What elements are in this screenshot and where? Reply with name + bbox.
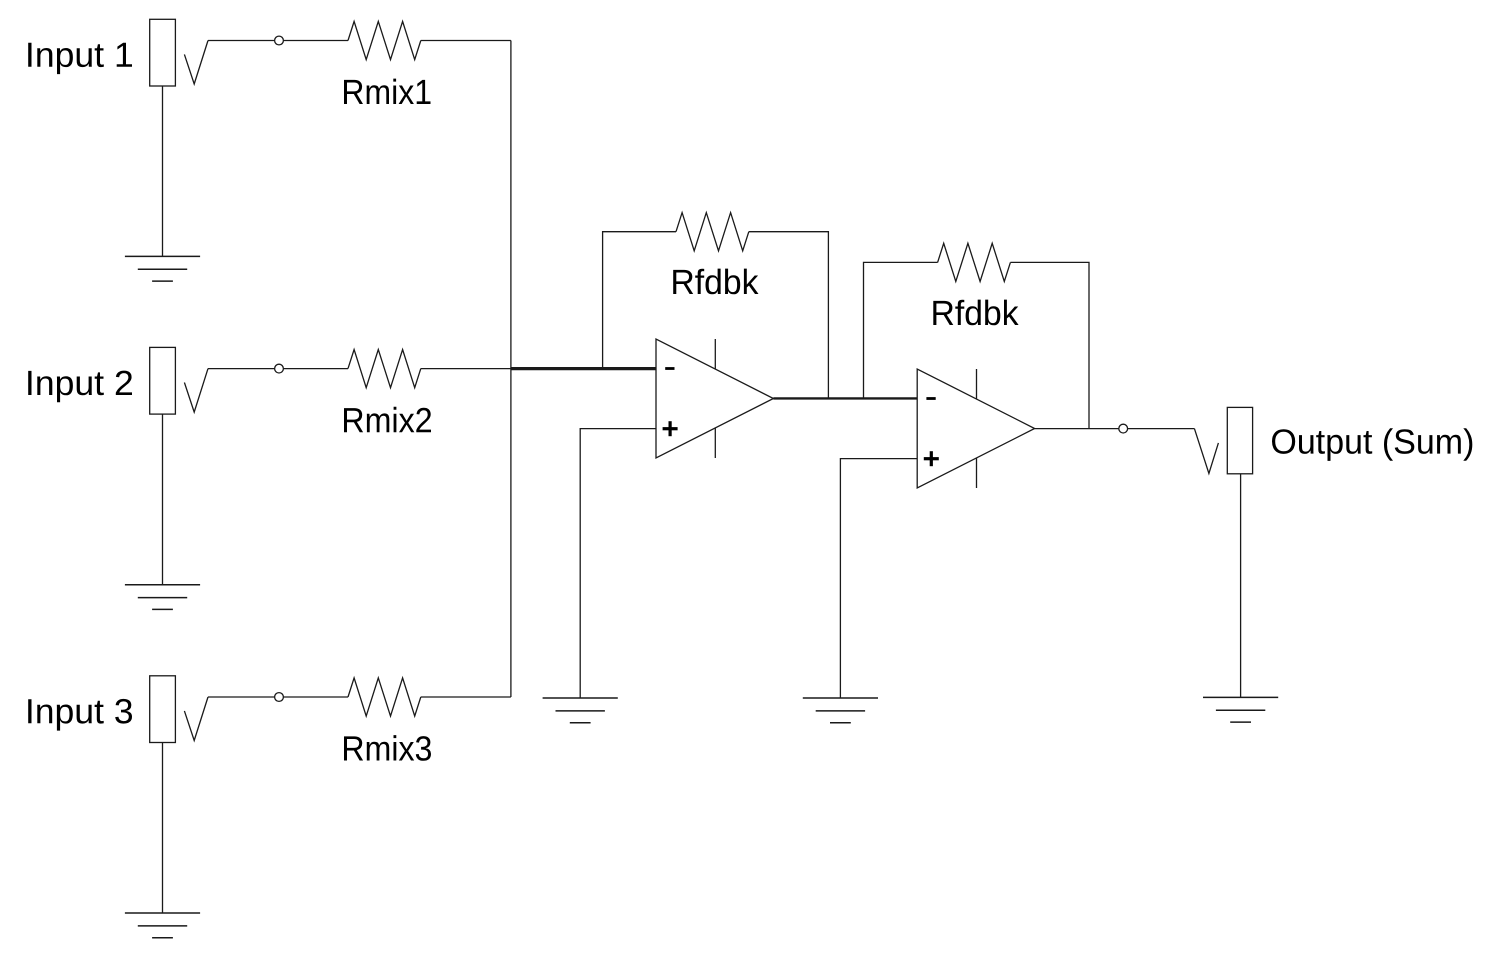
- node: open terminal on Input 2 wire: [275, 364, 284, 373]
- input jack J2 sleeve (Input 2): [150, 347, 176, 414]
- label "Rfdbk" (U2): [933, 300, 1018, 326]
- wire: U2 feedback loop (left and top): [864, 262, 938, 398]
- wire J2 tip to Rmix2: [208, 368, 348, 370]
- label "Rfdbk" (U1): [673, 269, 758, 295]
- node: open terminal at output: [1119, 424, 1128, 433]
- wire: U2 feedback loop (top right and right): [1010, 262, 1089, 428]
- jack J3 tip contact: [184, 697, 208, 741]
- input jack J3 sleeve (Input 3): [150, 676, 176, 743]
- U1 negative supply pin: [714, 428, 716, 458]
- op-amp U1 body: [656, 339, 773, 458]
- wire J3 sleeve to ground: [162, 743, 164, 914]
- label "Rmix1": [344, 79, 431, 104]
- wire: U1 output to U2 inverting input: [773, 397, 917, 399]
- label "Rmix3": [344, 735, 431, 761]
- label "Rmix2": [344, 407, 431, 432]
- resistor Rmix1: [348, 21, 421, 59]
- wire: U2 non-inverting input to ground: [840, 459, 917, 698]
- ground (Input 2): [125, 585, 200, 610]
- U2 positive supply pin: [976, 369, 978, 399]
- resistor Rfdbk (U2 feedback): [938, 243, 1011, 281]
- label "Output (Sum)": [1272, 428, 1472, 461]
- ground (Input 3): [125, 913, 200, 938]
- U2 negative supply pin: [976, 458, 978, 488]
- label "Input 3": [28, 699, 132, 731]
- label "Input 2": [28, 371, 132, 403]
- U1 positive supply pin: [714, 339, 716, 369]
- wire: U1 feedback loop (left and top): [603, 232, 676, 369]
- U1 inverting input symbol (-): [665, 367, 674, 370]
- label "Input 1": [28, 43, 132, 74]
- wire J2 sleeve to ground: [162, 414, 164, 585]
- node: open terminal on Input 1 wire: [275, 36, 284, 45]
- wire: U2 output to output node: [1035, 428, 1195, 430]
- ground (U1 non-inverting input): [543, 698, 618, 723]
- resistor Rmix3: [348, 678, 421, 716]
- wire J3 tip to Rmix3: [208, 696, 348, 698]
- wire Rmix2 to summing bus: [421, 368, 511, 370]
- wire Rmix3 to summing bus: [421, 696, 511, 698]
- wire: vertical summing bus: [510, 41, 512, 698]
- U2 inverting input symbol (-): [926, 397, 935, 400]
- output jack J4 sleeve: [1227, 407, 1252, 473]
- op-amp U2 body: [917, 369, 1034, 488]
- input jack J1 sleeve (Input 1): [150, 19, 176, 86]
- wire: U1 feedback loop (top right and right): [749, 232, 829, 399]
- jack J1 tip contact: [184, 41, 208, 85]
- node: open terminal on Input 3 wire: [275, 693, 284, 702]
- wire J1 sleeve to ground: [162, 86, 164, 256]
- ground (U2 non-inverting input): [803, 698, 878, 723]
- output jack J4 tip contact: [1194, 429, 1218, 474]
- ground (output): [1203, 697, 1278, 722]
- jack J2 tip contact: [184, 369, 208, 413]
- wire J1 tip to Rmix1: [208, 40, 348, 42]
- ground (Input 1): [125, 256, 200, 281]
- wire J4 sleeve to ground: [1240, 474, 1242, 698]
- U1 non-inverting input symbol (+): [663, 421, 678, 436]
- resistor Rmix2: [348, 350, 421, 388]
- wire Rmix1 to summing bus: [421, 40, 511, 42]
- wire: U1 non-inverting input to ground: [580, 429, 656, 698]
- U2 non-inverting input symbol (+): [924, 451, 939, 466]
- resistor Rfdbk (U1 feedback): [676, 213, 749, 251]
- wire: summing junction to U1 inverting input (node A): [511, 367, 656, 370]
